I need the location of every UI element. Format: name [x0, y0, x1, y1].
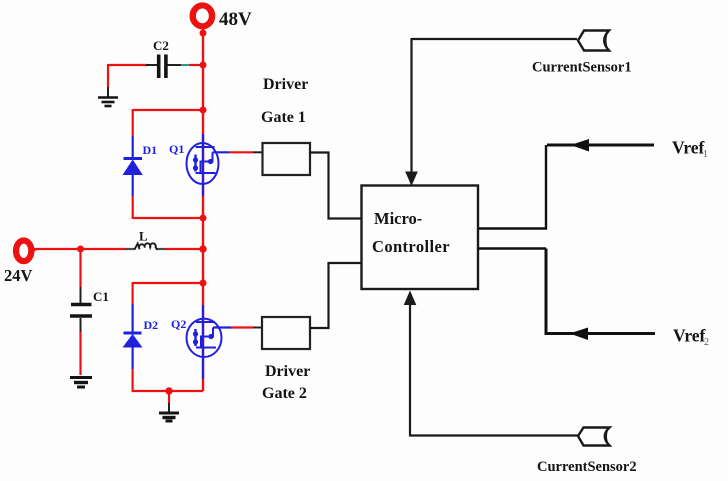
junction L node on rail — [199, 245, 206, 252]
junction below 48V terminal — [200, 30, 207, 37]
wire Driver Gate 1 to Micro-Controller — [310, 153, 362, 219]
wire 24V rail horizontal — [30, 248, 203, 250]
wire D1 branch left vertical — [132, 109, 134, 219]
arrow into micro-controller top — [405, 172, 418, 187]
driver gate 1 box — [261, 76, 310, 175]
svg-text:Vref: Vref — [673, 326, 706, 346]
svg-text:Driver: Driver — [263, 76, 308, 93]
terminal 24V — [14, 238, 37, 263]
label CurrentSensor2 — [537, 459, 637, 475]
current sensor 1 symbol — [578, 31, 609, 51]
arrow Vref1 — [571, 139, 590, 152]
ground (C2 branch) — [98, 98, 118, 107]
svg-text:L: L — [139, 229, 148, 244]
wire Q1 gate to Driver Gate 1 — [213, 151, 263, 153]
diode D1 — [123, 143, 158, 175]
svg-text:C2: C2 — [153, 38, 169, 53]
svg-text:Q1: Q1 — [169, 142, 184, 156]
arrow Vref2 — [570, 328, 589, 341]
label CurrentSensor1 — [532, 60, 632, 76]
junction C2 to rail — [200, 62, 207, 69]
svg-text:C1: C1 — [93, 289, 109, 304]
svg-text:Gate 1: Gate 1 — [261, 109, 306, 126]
inductor L — [135, 243, 158, 250]
wire D2 loop bottom — [133, 390, 203, 392]
wire ground stem — [168, 391, 170, 412]
wire Driver Gate 2 to Micro-Controller — [310, 263, 362, 328]
wire Q2 gate to Driver Gate 2 — [213, 326, 262, 328]
wire D2 branch left vertical — [132, 282, 134, 392]
wire main vertical rail 48V to bottom — [202, 26, 204, 391]
svg-text:1: 1 — [703, 149, 708, 160]
capacitor C1 — [70, 289, 109, 316]
wire C1 branch vertical — [79, 249, 81, 375]
svg-text:Controller: Controller — [372, 237, 450, 256]
ground (C1 branch) — [70, 378, 92, 388]
svg-text:24V: 24V — [4, 266, 33, 285]
junction D1 loop bottom — [200, 215, 207, 222]
svg-text:Gate 2: Gate 2 — [262, 385, 307, 402]
wire D1 loop bottom — [133, 217, 203, 219]
svg-text:CurrentSensor1: CurrentSensor1 — [532, 60, 632, 76]
wire current sensor 2 — [410, 303, 578, 437]
wire C2 branch horizontal — [108, 64, 203, 66]
svg-text:D2: D2 — [144, 318, 159, 332]
wire Vref2 — [478, 249, 655, 334]
svg-text:2: 2 — [704, 337, 709, 348]
capacitor C2 — [153, 38, 169, 78]
wire current sensor 1 — [412, 38, 578, 174]
junction C1 branch — [77, 246, 84, 253]
label Vref2 — [673, 326, 709, 349]
wire D1 loop top — [133, 109, 203, 111]
label Vref1 — [672, 138, 708, 161]
transistor Q1 — [169, 134, 219, 196]
junction ground node — [165, 387, 172, 394]
arrow into micro-controller bottom — [404, 291, 417, 306]
label 48V — [219, 9, 252, 30]
wire D2 loop top — [133, 282, 203, 284]
micro-controller U1 — [362, 186, 479, 290]
svg-text:D1: D1 — [143, 143, 158, 157]
label 24V — [4, 266, 33, 285]
label L — [139, 229, 148, 244]
wire Vref1 — [478, 145, 654, 229]
svg-text:48V: 48V — [219, 9, 252, 30]
svg-text:CurrentSensor2: CurrentSensor2 — [537, 459, 637, 475]
svg-text:Micro-: Micro- — [374, 209, 422, 228]
ground (main) — [159, 413, 179, 421]
current sensor 2 symbol — [578, 428, 610, 446]
svg-text:Q2: Q2 — [171, 317, 186, 331]
svg-text:Driver: Driver — [265, 363, 310, 380]
junction D2 loop top — [200, 280, 207, 287]
driver gate 2 box — [262, 317, 310, 402]
wire C2 to ground vertical — [107, 64, 109, 97]
transistor Q2 — [171, 305, 222, 379]
terminal 48V — [190, 3, 214, 28]
junction D1 loop top — [200, 107, 207, 114]
diode D2 — [123, 318, 159, 348]
svg-text:Vref: Vref — [672, 138, 705, 158]
